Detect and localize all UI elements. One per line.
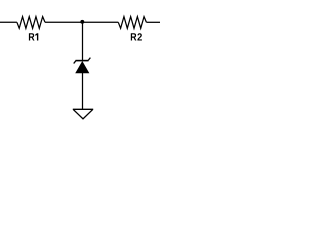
wire left input to R1 bbox=[0, 21, 17, 23]
wire R2 to right output bbox=[146, 21, 160, 23]
resistor R2 bbox=[118, 17, 146, 29]
wire junction down to zener cathode bbox=[82, 22, 84, 60]
wire R1 to junction bbox=[45, 21, 82, 23]
label R1 bbox=[29, 33, 38, 40]
node junction dot bbox=[80, 20, 84, 24]
zener diode anode triangle bbox=[76, 62, 88, 73]
zener diode cathode left tail bbox=[74, 61, 76, 64]
label R2 bbox=[131, 33, 142, 40]
ground symbol bbox=[73, 109, 93, 119]
zener diode cathode right tail bbox=[88, 58, 90, 61]
zener diode cathode bar bbox=[76, 60, 89, 62]
resistor R1 bbox=[17, 17, 45, 29]
wire zener anode down to ground bbox=[82, 72, 84, 109]
wire junction to R2 bbox=[82, 21, 118, 23]
